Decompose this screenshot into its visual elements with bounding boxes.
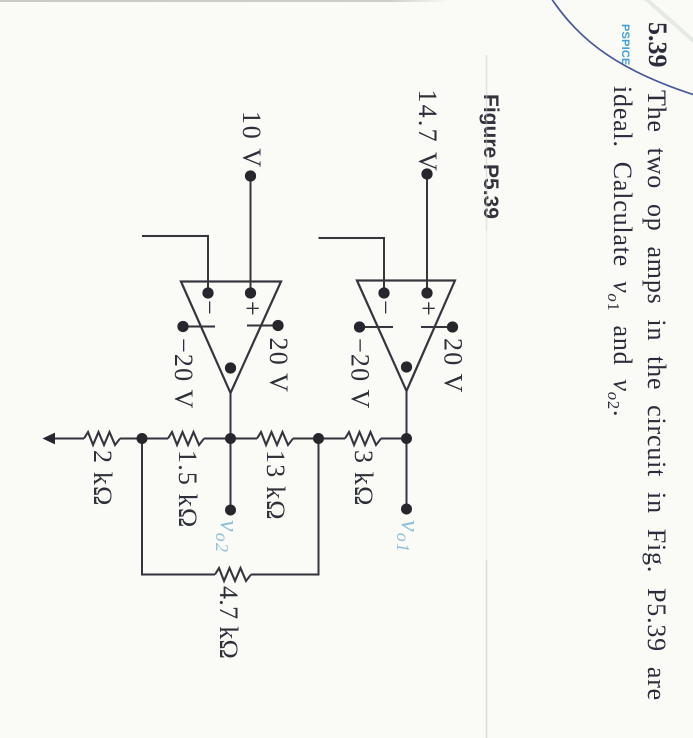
figure caption xyxy=(478,94,502,219)
node: 10 V source terminal xyxy=(245,170,256,181)
PSPICE tag xyxy=(619,24,631,66)
decorative faint crease line xyxy=(486,55,488,738)
label -20 V (U1) xyxy=(346,338,375,409)
resistor 13 kOhm xyxy=(257,432,293,445)
label 20 V (U2) xyxy=(264,338,293,394)
resistor 4.7 kOhm xyxy=(215,568,251,581)
label 4.7 kOhm xyxy=(214,586,243,659)
svg-text:+: + xyxy=(414,301,443,317)
label vo1 xyxy=(393,520,425,553)
label 20 V (U1) xyxy=(439,338,468,394)
label - U2 xyxy=(195,300,224,316)
node: U1 -supply xyxy=(354,321,365,332)
svg-text:13 kΩ: 13 kΩ xyxy=(261,450,290,521)
resistor 2 kOhm xyxy=(84,432,120,445)
node 3 xyxy=(313,433,324,444)
svg-text:−: − xyxy=(195,300,224,316)
label 13 kOhm xyxy=(261,450,290,521)
decorative faint streak xyxy=(645,0,693,44)
wire: 10 V source to U2 noninverting input xyxy=(249,176,251,293)
label 10 V xyxy=(237,111,266,169)
label -20 V (U2) xyxy=(169,338,198,409)
svg-text:−20 V: −20 V xyxy=(346,338,375,409)
node: U1 inverting input xyxy=(378,287,389,298)
svg-text:vo2: vo2 xyxy=(212,520,244,553)
wire: node3 to 4.7k branch xyxy=(251,439,319,575)
wire: bus 13k to 1.5k xyxy=(204,437,257,439)
svg-text:1.5 kΩ: 1.5 kΩ xyxy=(173,450,202,529)
svg-text:20 V: 20 V xyxy=(439,338,468,394)
wire: U2 output to bus node 2 xyxy=(229,393,231,439)
op-amp U1 xyxy=(357,281,455,392)
decorative blue pen arc xyxy=(547,0,693,97)
svg-text:4.7 kΩ: 4.7 kΩ xyxy=(214,586,243,659)
node 2 xyxy=(225,433,236,444)
node: U2 noninverting input xyxy=(245,287,256,298)
wire: U1 feedback to node 3 xyxy=(319,238,385,293)
wire: node4 to vo1 terminal xyxy=(405,439,407,510)
label 14.7 V xyxy=(413,89,442,173)
wire: node2 to vo2 terminal xyxy=(229,439,231,511)
node: vo2 terminal xyxy=(225,505,236,516)
svg-text:14.7 V: 14.7 V xyxy=(413,89,442,173)
wire: 14.7 V source to U1 noninverting input xyxy=(426,174,428,293)
resistor 3 kOhm xyxy=(345,432,381,445)
wire: bus node4 to 3k xyxy=(381,437,407,439)
node: U2 -supply xyxy=(177,321,188,332)
label - U1 xyxy=(371,300,400,316)
node: 14.7 V source terminal xyxy=(421,168,432,179)
arrow terminal at bus bottom xyxy=(43,433,56,445)
problem number 5.39 xyxy=(642,22,672,68)
problem text line 2 xyxy=(603,86,637,417)
svg-text:+: + xyxy=(238,301,267,317)
svg-text:−: − xyxy=(371,300,400,316)
label 1.5 kOhm xyxy=(173,450,202,529)
op-amp U2 xyxy=(181,282,281,394)
wire: 4.7k branch to node1 xyxy=(142,439,215,575)
node: U2 +supply xyxy=(272,320,283,331)
node: U2 output pin xyxy=(225,362,236,373)
wire: U1 output to bus node 4 xyxy=(405,391,407,439)
wire: U2 feedback to node 1 xyxy=(142,236,208,293)
svg-text:3 kΩ: 3 kΩ xyxy=(349,450,378,507)
svg-text:−20 V: −20 V xyxy=(169,338,198,409)
node 1 xyxy=(137,433,148,444)
svg-text:vo1: vo1 xyxy=(393,520,425,553)
node: U1 +supply xyxy=(447,321,458,332)
wire: bus below 2k to arrow xyxy=(55,437,84,439)
label 3 kOhm xyxy=(349,450,378,507)
wire: bus 3k to 13k xyxy=(293,437,345,439)
svg-text:10 V: 10 V xyxy=(237,111,266,169)
wire: bus 1.5k to 2k xyxy=(120,437,168,439)
node 4 xyxy=(401,433,412,444)
node: U1 output pin xyxy=(401,361,412,372)
resistor 1.5 kOhm xyxy=(168,432,204,445)
label vo2 xyxy=(212,520,244,553)
node: U1 noninverting input xyxy=(421,287,432,298)
label + U2 xyxy=(238,301,267,317)
svg-text:2 kΩ: 2 kΩ xyxy=(88,450,117,507)
svg-text:20 V: 20 V xyxy=(264,338,293,394)
node: U2 inverting input xyxy=(202,287,213,298)
node: vo1 terminal xyxy=(401,504,412,515)
label + U1 xyxy=(414,301,443,317)
problem text line 1 xyxy=(641,90,671,701)
label 2 kOhm xyxy=(88,450,117,507)
